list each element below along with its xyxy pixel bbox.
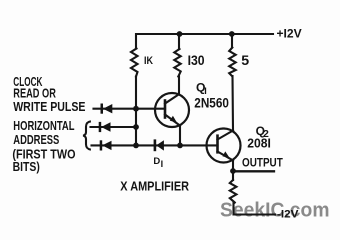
svg-text:I30: I30 [188,52,205,68]
svg-text:OUTPUT: OUTPUT [242,156,283,170]
resistor R3 5 zigzag [229,48,236,77]
wire Q1 collector [178,77,180,95]
transistor Q1 emitter arrow [170,116,177,123]
diode D1 [154,139,164,151]
transistor Q2 emitter arrow [223,151,230,157]
node junction line3 [133,143,139,149]
wire +12V top bus [136,34,273,49]
transistor Q1 collector diagonal [165,94,179,103]
svg-text:HORIZONTAL: HORIZONTAL [13,118,74,133]
resistor R4 emitter zigzag [230,180,237,203]
node junction bus-5 [229,31,235,37]
wire input bus vertical [135,77,137,146]
svg-text:2N560: 2N560 [194,96,229,111]
wire Q2 emitter down [232,160,234,171]
diode input line3 [100,140,112,150]
wire output line [233,170,274,172]
svg-text:I: I [161,159,164,169]
node junction emitter-line3 [177,143,183,149]
resistor R1 1K zigzag [131,49,138,77]
wire input line 3 to Q2 base [92,144,218,146]
transistor Q1 base bar [164,101,167,118]
transistor Q2 circle [207,129,241,163]
wire 130 branch upper [178,34,180,49]
transistor Q1 emitter diagonal [165,115,180,126]
node junction line1 [133,106,139,112]
wire 5 branch upper [231,34,233,48]
wire Q1 emitter down [179,126,181,146]
wire emitter resistor top [232,171,234,180]
diode input line1 [101,104,113,114]
node junction output [230,168,236,174]
diode input line2 [99,122,111,132]
svg-text:WRITE PULSE: WRITE PULSE [13,99,86,114]
wire to -12V [234,203,276,215]
svg-text:ADDRESS: ADDRESS [13,132,59,147]
transistor Q2 base bar [216,136,219,153]
svg-text:X AMPLIFIER: X AMPLIFIER [120,179,189,194]
svg-text:I: I [204,86,207,96]
svg-text:5: 5 [241,53,249,69]
svg-text:IK: IK [144,55,153,67]
wire Q2 collector [231,76,234,131]
wire input line 1 [94,108,166,110]
svg-text:-I2V: -I2V [277,209,299,221]
node junction line2 [133,124,139,130]
svg-text:D: D [153,156,160,167]
svg-text:BITS): BITS) [13,159,40,174]
wire input line 2 [91,126,137,128]
transistor Q2 collector diagonal [218,131,234,140]
resistor R2 130 zigzag [174,49,180,77]
transistor Q1 circle [155,93,189,127]
node junction bus-130 [177,31,183,37]
svg-text:208I: 208I [247,137,271,151]
transistor Q2 emitter diagonal [218,152,234,161]
svg-text:+I2V: +I2V [277,29,303,41]
brace horizontal address [83,121,91,149]
svg-text:SeekIC.com: SeekIC.com [220,198,330,221]
